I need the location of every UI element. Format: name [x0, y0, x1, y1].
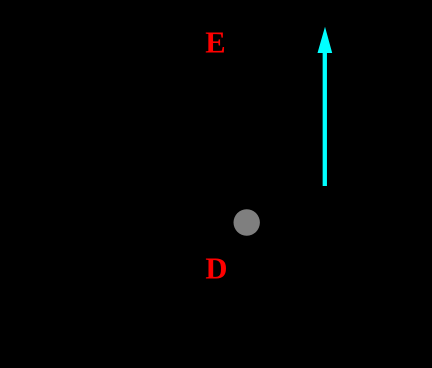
- svg-text:D: D: [205, 252, 227, 286]
- node D dot: [234, 209, 260, 235]
- vector arrow: [318, 27, 333, 186]
- svg-text:E: E: [205, 26, 225, 60]
